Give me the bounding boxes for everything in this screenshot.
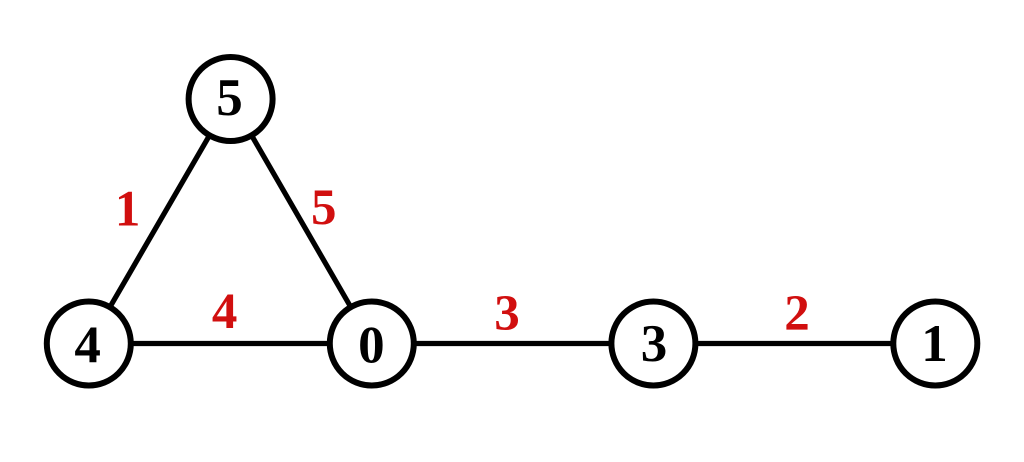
node 3 circle bbox=[611, 302, 695, 386]
svg-text:4: 4 bbox=[74, 317, 101, 375]
node 0 circle bbox=[330, 302, 414, 386]
svg-text:5: 5 bbox=[311, 180, 337, 236]
edge 4-0 bbox=[89, 341, 372, 346]
svg-text:4: 4 bbox=[212, 284, 238, 340]
svg-text:3: 3 bbox=[494, 286, 520, 342]
svg-text:1: 1 bbox=[921, 315, 948, 373]
svg-text:3: 3 bbox=[641, 315, 668, 373]
edge 3-1 bbox=[653, 341, 935, 346]
svg-text:0: 0 bbox=[358, 317, 385, 375]
edge 5-0 bbox=[231, 99, 372, 344]
node 5 circle bbox=[189, 57, 273, 141]
node 1 circle bbox=[893, 302, 977, 386]
svg-text:5: 5 bbox=[216, 69, 243, 127]
svg-text:2: 2 bbox=[784, 286, 810, 342]
edge 0-3 bbox=[372, 341, 654, 346]
edge 5-4 bbox=[89, 99, 231, 344]
node 4 circle bbox=[47, 302, 131, 386]
svg-text:1: 1 bbox=[115, 181, 141, 237]
